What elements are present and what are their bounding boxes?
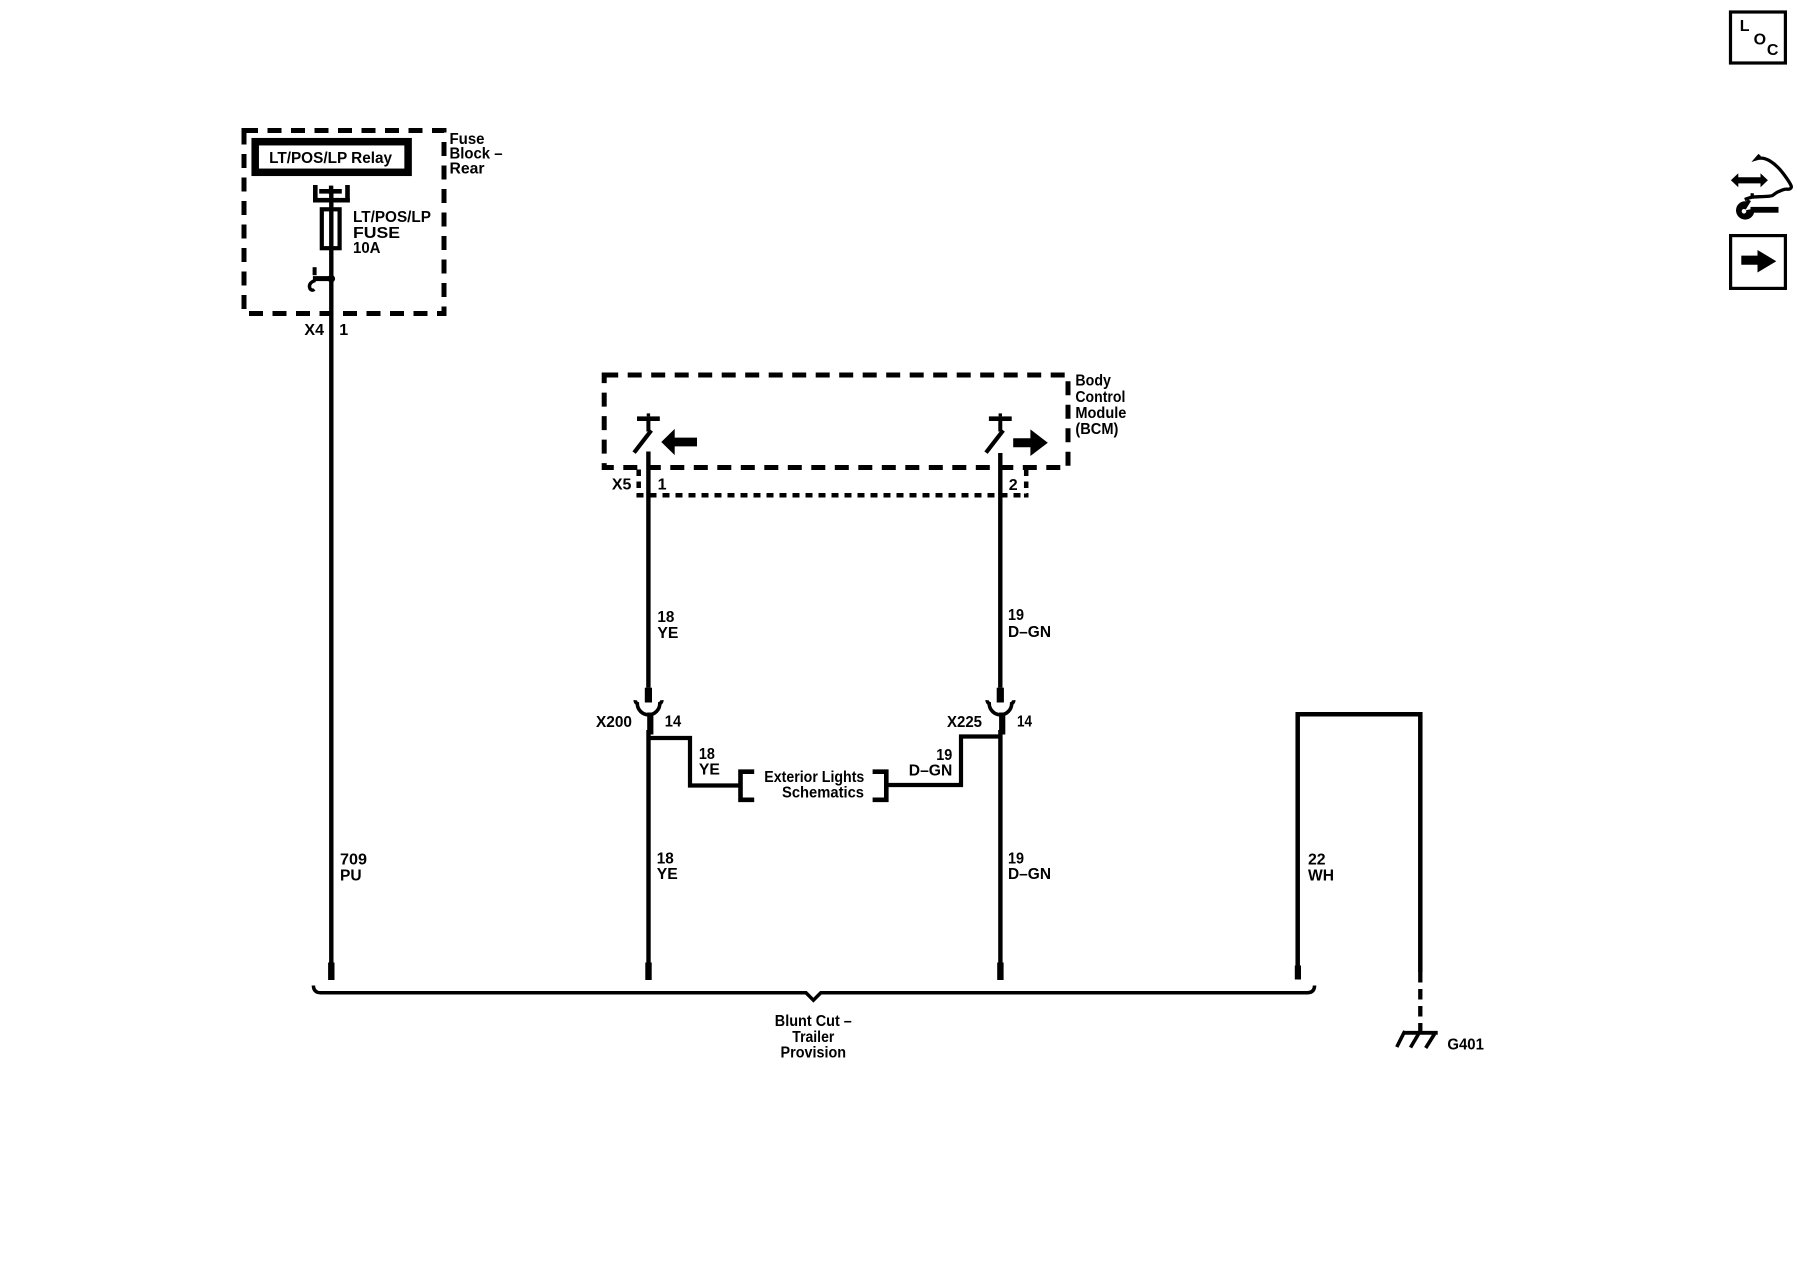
svg-text:19: 19 bbox=[1008, 607, 1024, 624]
svg-text:D–GN: D–GN bbox=[909, 763, 953, 780]
svg-text:18: 18 bbox=[657, 609, 674, 626]
svg-text:709: 709 bbox=[340, 852, 367, 869]
svg-text:19: 19 bbox=[936, 747, 952, 764]
svg-text:Control: Control bbox=[1075, 389, 1125, 406]
svg-text:LT/POS/LP Relay: LT/POS/LP Relay bbox=[269, 150, 392, 167]
svg-text:Blunt Cut –: Blunt Cut – bbox=[775, 1013, 852, 1030]
svg-text:19: 19 bbox=[1008, 850, 1024, 867]
svg-text:10A: 10A bbox=[353, 240, 381, 257]
svg-text:D–GN: D–GN bbox=[1008, 866, 1051, 883]
svg-text:18: 18 bbox=[657, 850, 674, 867]
svg-text:X5: X5 bbox=[612, 476, 632, 493]
svg-text:C: C bbox=[1767, 42, 1779, 59]
svg-text:2: 2 bbox=[1009, 477, 1018, 494]
svg-text:YE: YE bbox=[657, 625, 678, 642]
svg-text:LT/POS/LP: LT/POS/LP bbox=[353, 209, 431, 226]
svg-text:Exterior Lights: Exterior Lights bbox=[764, 769, 864, 786]
svg-text:1: 1 bbox=[339, 322, 348, 339]
svg-text:O: O bbox=[1754, 31, 1766, 48]
svg-text:14: 14 bbox=[665, 714, 681, 731]
svg-text:Module: Module bbox=[1075, 405, 1126, 422]
svg-text:X225: X225 bbox=[947, 714, 982, 731]
svg-text:Body: Body bbox=[1075, 373, 1111, 390]
svg-text:Provision: Provision bbox=[781, 1045, 847, 1062]
svg-text:L: L bbox=[1740, 18, 1750, 35]
svg-text:1: 1 bbox=[658, 476, 667, 493]
svg-text:(BCM): (BCM) bbox=[1075, 421, 1118, 438]
svg-text:G401: G401 bbox=[1447, 1037, 1484, 1054]
svg-text:YE: YE bbox=[657, 866, 678, 883]
svg-text:14: 14 bbox=[1017, 714, 1032, 731]
svg-text:X200: X200 bbox=[596, 714, 632, 731]
svg-text:WH: WH bbox=[1308, 867, 1334, 884]
svg-text:18: 18 bbox=[699, 746, 715, 763]
svg-text:Trailer: Trailer bbox=[792, 1029, 834, 1046]
svg-text:X4: X4 bbox=[304, 322, 324, 339]
svg-text:Schematics: Schematics bbox=[782, 785, 864, 802]
svg-text:D–GN: D–GN bbox=[1008, 624, 1051, 641]
svg-text:22: 22 bbox=[1308, 852, 1326, 869]
svg-text:YE: YE bbox=[699, 762, 720, 779]
svg-text:PU: PU bbox=[340, 867, 362, 884]
svg-text:Rear: Rear bbox=[450, 160, 485, 177]
